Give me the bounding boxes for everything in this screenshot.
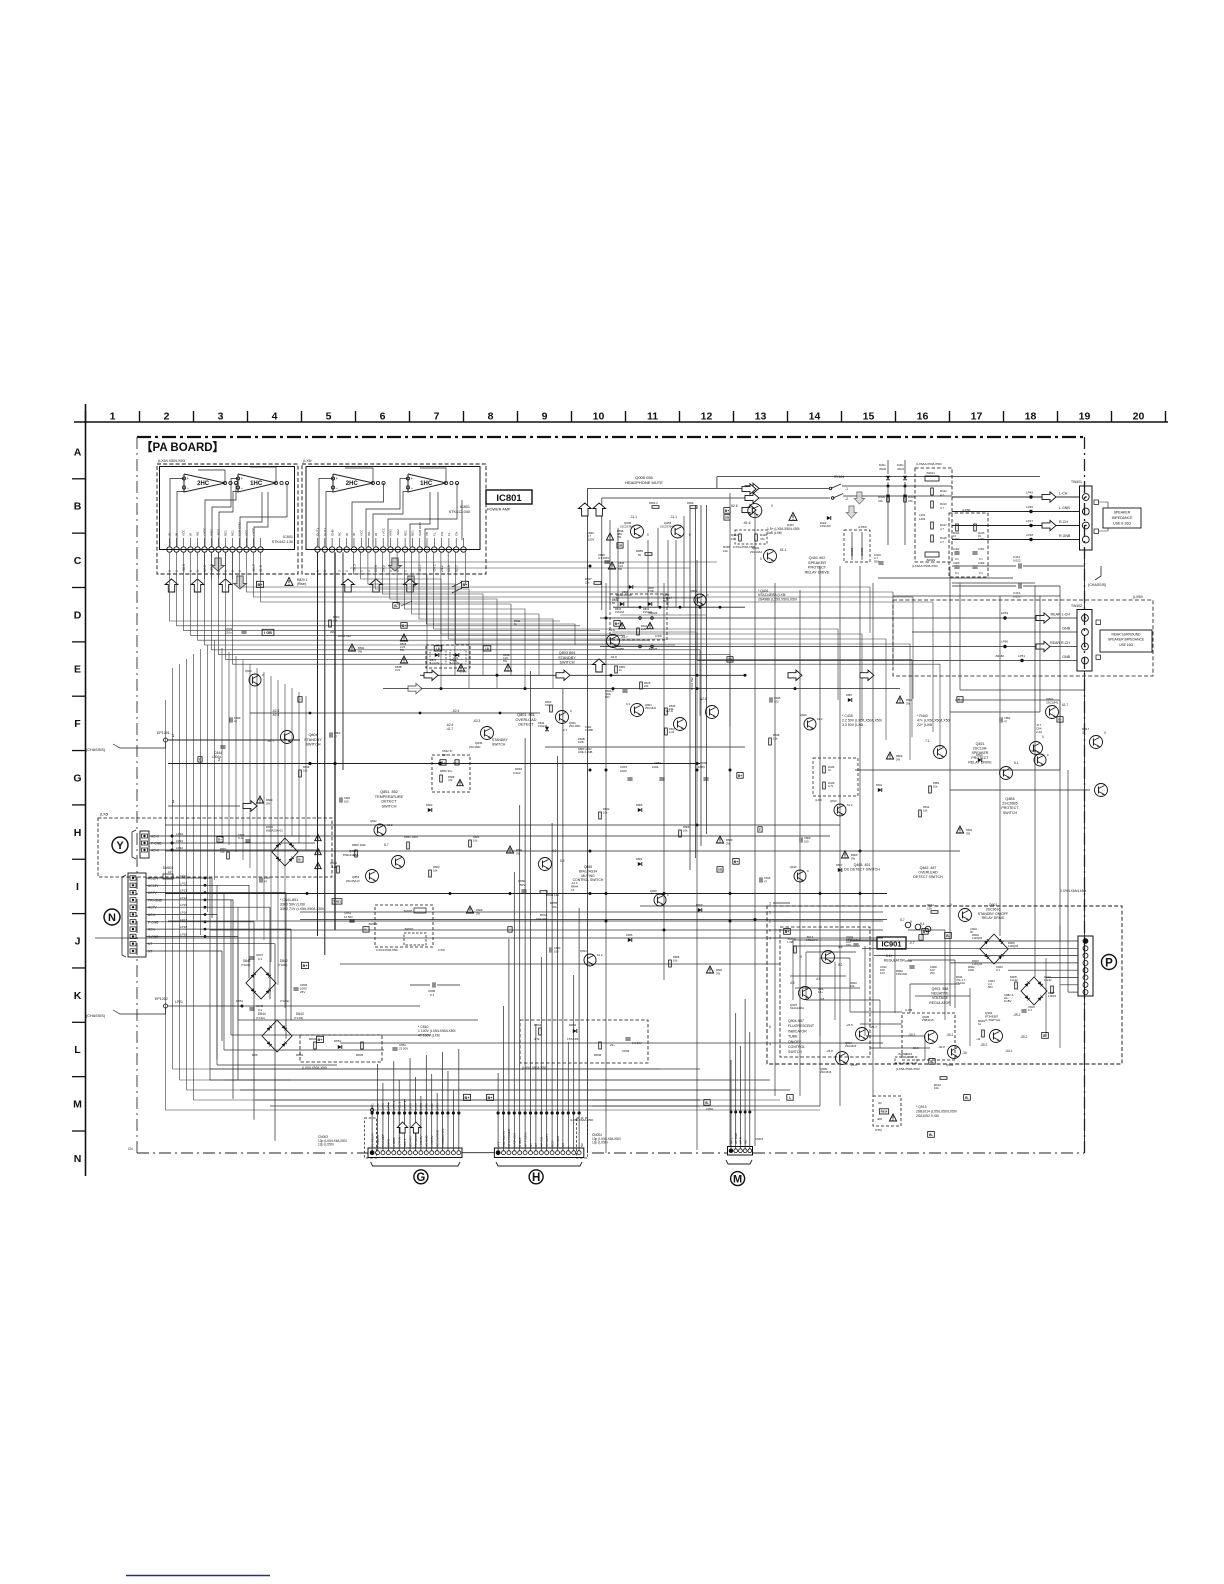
wire bbox=[530, 1113, 532, 1151]
connector P pin bbox=[1083, 968, 1088, 973]
svg-text:(LX5/LX50/LX50l: (LX5/LX50/LX50l bbox=[896, 1067, 920, 1071]
connector H right dashed box bbox=[577, 1118, 588, 1158]
transistor Q401 bbox=[748, 504, 762, 518]
wire bbox=[696, 632, 698, 661]
svg-text:0.8: 0.8 bbox=[820, 997, 825, 1001]
diode bbox=[698, 908, 702, 912]
svg-text:B+: B+ bbox=[318, 1038, 324, 1042]
svg-text:(LX50l: (LX50l bbox=[858, 525, 867, 529]
svg-text:AC13V: AC13V bbox=[148, 884, 159, 888]
IC801 package outline 1 bbox=[160, 467, 295, 550]
wire long vertical bbox=[587, 488, 589, 1153]
wire bbox=[412, 552, 539, 675]
transistor Q453 bbox=[1000, 767, 1013, 780]
warning mark bbox=[315, 848, 321, 854]
arrow bbox=[1042, 492, 1056, 502]
svg-text:220u: 220u bbox=[225, 630, 232, 634]
arrow bbox=[860, 670, 874, 680]
svg-text:100V: 100V bbox=[620, 769, 627, 773]
svg-text:R812: R812 bbox=[923, 805, 930, 809]
svg-text:2SC1841: 2SC1841 bbox=[569, 724, 581, 728]
svg-text:VOL 2: VOL 2 bbox=[403, 1138, 407, 1147]
wire bbox=[285, 893, 287, 1039]
svg-text:(Rear): (Rear) bbox=[297, 582, 306, 586]
svg-text:LP48: LP48 bbox=[1026, 533, 1033, 537]
svg-text:I: I bbox=[76, 881, 79, 893]
svg-text:RELAY DRIVE: RELAY DRIVE bbox=[982, 916, 1005, 920]
svg-text:1SS1S0l: 1SS1S0l bbox=[896, 972, 907, 976]
svg-text:(LX6l: (LX6l bbox=[905, 1008, 913, 1012]
svg-text:77-10A: 77-10A bbox=[956, 981, 965, 985]
svg-text:8: 8 bbox=[488, 411, 494, 423]
wire bbox=[567, 1113, 569, 1151]
wire bbox=[862, 947, 1078, 949]
svg-text:J: J bbox=[75, 935, 81, 947]
svg-text:0.X%/LX6A/LX50l: 0.X%/LX6A/LX50l bbox=[1060, 889, 1086, 893]
svg-text:400: 400 bbox=[877, 1117, 882, 1121]
wire bbox=[240, 552, 871, 587]
wire bus 2b bbox=[855, 769, 1060, 771]
svg-text:100k: 100k bbox=[578, 740, 584, 744]
svg-text:11DQ04: 11DQ04 bbox=[972, 936, 983, 940]
wire bbox=[869, 587, 871, 633]
wire bbox=[839, 566, 841, 1106]
wire bbox=[431, 1113, 433, 1151]
resistor R417 bbox=[931, 522, 934, 529]
svg-text:R829: R829 bbox=[476, 908, 483, 912]
connector G circle bbox=[414, 1170, 428, 1184]
svg-text:47 100V (LX6l: 47 100V (LX6l bbox=[418, 1033, 440, 1037]
wire bbox=[508, 1113, 510, 1151]
IC901 outer group box bbox=[767, 906, 1122, 1064]
resistor bbox=[679, 830, 682, 837]
svg-text:4: 4 bbox=[272, 411, 278, 423]
wire bbox=[739, 1046, 741, 1112]
ruler tick bbox=[895, 411, 897, 422]
svg-text:17B/LX4l: 17B/LX4l bbox=[806, 938, 818, 942]
svg-text:2SC1841: 2SC1841 bbox=[469, 745, 481, 749]
svg-text:LP82: LP82 bbox=[430, 1103, 434, 1110]
wire bbox=[397, 552, 511, 675]
svg-text:B+: B+ bbox=[615, 622, 619, 626]
ruler tick bbox=[949, 411, 951, 422]
svg-text:R824: R824 bbox=[473, 835, 480, 839]
wire bbox=[146, 950, 222, 952]
wire bbox=[909, 984, 911, 1013]
arrow bbox=[788, 670, 802, 680]
svg-text:NE1: NE1 bbox=[231, 530, 235, 536]
svg-text:4: 4 bbox=[769, 937, 771, 941]
wire bbox=[773, 1042, 883, 1044]
warning mark bbox=[400, 634, 407, 641]
svg-text:60.9: 60.9 bbox=[374, 565, 378, 572]
wire 3 with arrow bbox=[168, 805, 240, 807]
wire bbox=[298, 692, 300, 843]
wire bbox=[377, 1113, 379, 1151]
svg-text:0.1: 0.1 bbox=[1028, 1008, 1032, 1012]
wire bbox=[949, 566, 951, 1006]
wire bbox=[908, 929, 945, 931]
svg-text:10k: 10k bbox=[473, 839, 478, 843]
wire bbox=[530, 671, 532, 1113]
wire bbox=[371, 1105, 373, 1113]
warning mark bbox=[789, 513, 797, 521]
svg-text:56: 56 bbox=[638, 553, 642, 557]
wire bbox=[387, 1113, 389, 1151]
svg-text:LP18: LP18 bbox=[180, 925, 187, 929]
group box L.X6A top right bbox=[915, 468, 952, 562]
wire bbox=[149, 842, 315, 844]
wire bbox=[699, 650, 701, 716]
svg-text:2W: 2W bbox=[358, 650, 362, 654]
resistor R407 bbox=[904, 495, 907, 502]
wire bbox=[805, 952, 807, 1000]
svg-text:0.1: 0.1 bbox=[955, 557, 959, 561]
capacitor C406 bbox=[954, 565, 959, 567]
svg-text:-26.8: -26.8 bbox=[826, 1049, 833, 1053]
transistor Q907 bbox=[799, 987, 812, 1000]
rear impedance box bbox=[1100, 630, 1152, 652]
PA BOARD dash-dot border top bbox=[137, 436, 1084, 438]
svg-text:P: P bbox=[1105, 958, 1113, 970]
svg-text:ECO: ECO bbox=[550, 1140, 554, 1147]
resistor R904 bbox=[982, 1030, 985, 1037]
svg-text:4.7: 4.7 bbox=[940, 540, 944, 544]
wire bbox=[184, 552, 601, 630]
connector G outline bbox=[368, 1148, 462, 1158]
svg-text:+: + bbox=[241, 476, 244, 481]
arrow bbox=[846, 506, 856, 518]
wire bbox=[932, 602, 934, 732]
transistor Q810 bbox=[674, 718, 687, 731]
svg-text:IC801: IC801 bbox=[460, 505, 470, 509]
wire bbox=[600, 646, 697, 648]
svg-text:C839: C839 bbox=[234, 716, 241, 720]
svg-text:NE1: NE1 bbox=[411, 530, 415, 536]
wire bus bbox=[420, 674, 745, 676]
wire bbox=[238, 1019, 478, 1021]
connector M outline bbox=[728, 1147, 753, 1156]
wire bbox=[689, 505, 691, 870]
warning mark bbox=[716, 836, 723, 843]
svg-text:R800: R800 bbox=[333, 615, 340, 619]
arrow bbox=[742, 505, 756, 515]
svg-text:0F: 0F bbox=[970, 930, 974, 934]
svg-text:CN: CN bbox=[454, 532, 458, 536]
arrow bbox=[556, 670, 570, 680]
svg-text:(TLR2): (TLR2) bbox=[278, 963, 287, 967]
connector M bracket bbox=[726, 1160, 752, 1164]
svg-text:47k: 47k bbox=[760, 537, 765, 541]
warning mark bbox=[315, 862, 321, 868]
svg-text:JW607: JW607 bbox=[404, 927, 414, 931]
svg-text:R.GNB: R.GNB bbox=[1059, 534, 1071, 538]
svg-text:D823: D823 bbox=[426, 803, 433, 807]
wire bbox=[447, 1071, 449, 1113]
svg-text:LP78: LP78 bbox=[408, 1103, 412, 1110]
wire bbox=[233, 552, 941, 664]
svg-text:D: D bbox=[74, 609, 82, 621]
capacitor C402 bbox=[954, 551, 959, 553]
resistor R429 bbox=[755, 534, 758, 541]
junction bbox=[696, 769, 699, 772]
wire bbox=[221, 648, 223, 838]
svg-text:15k: 15k bbox=[545, 703, 550, 707]
resistor R813 bbox=[550, 705, 553, 712]
svg-text:Y: Y bbox=[116, 840, 124, 852]
rear impedance squares bbox=[1096, 620, 1101, 625]
svg-text:RELAY DRIVE: RELAY DRIVE bbox=[968, 760, 992, 764]
wire bbox=[573, 975, 575, 1113]
warning mark bbox=[506, 846, 513, 853]
svg-text:OUT1: OUT1 bbox=[316, 528, 320, 536]
wire bus 2 bbox=[168, 763, 700, 765]
wire bbox=[497, 1113, 499, 1151]
wire bbox=[404, 1099, 406, 1113]
connector P pin bbox=[1083, 982, 1088, 987]
wire bbox=[792, 940, 794, 1000]
svg-text:-30.2: -30.2 bbox=[908, 1033, 915, 1037]
resistor bbox=[669, 960, 672, 967]
diode bbox=[628, 938, 632, 942]
pin row IC801-2 bbox=[315, 547, 320, 552]
svg-text:HP GNB: HP GNB bbox=[734, 1133, 738, 1144]
wire bbox=[609, 520, 611, 607]
svg-text:-16: -16 bbox=[452, 761, 456, 765]
wire bbox=[513, 1113, 515, 1151]
op-amp 1HC (IC801-2) bbox=[406, 474, 447, 492]
wire bbox=[950, 789, 1090, 791]
svg-text:12: 12 bbox=[701, 411, 713, 423]
arrow bbox=[578, 503, 591, 516]
wire bbox=[261, 552, 934, 602]
svg-text:2SA1052 0.X6l: 2SA1052 0.X6l bbox=[916, 1114, 939, 1118]
svg-text:L-CH: L-CH bbox=[1059, 492, 1068, 496]
svg-text:9-1: 9-1 bbox=[920, 922, 925, 926]
svg-text:LP75 1: LP75 1 bbox=[392, 1100, 396, 1110]
wire bbox=[290, 929, 292, 1020]
svg-text:12V: 12V bbox=[880, 971, 885, 975]
wire bbox=[879, 1000, 881, 1048]
capacitor C845 bbox=[293, 987, 298, 989]
capacitor C409 bbox=[972, 565, 977, 567]
svg-text:IN1: IN1 bbox=[196, 531, 200, 536]
diode bbox=[638, 808, 642, 812]
svg-text:HF T-5SV1: HF T-5SV1 bbox=[523, 1132, 527, 1147]
svg-text:61.2: 61.2 bbox=[597, 953, 603, 957]
wire bbox=[305, 696, 307, 850]
svg-text:LP51: LP51 bbox=[1018, 654, 1025, 658]
wire bbox=[237, 936, 239, 1080]
wire bbox=[908, 959, 955, 961]
svg-text:B+: B+ bbox=[303, 964, 309, 968]
svg-text:MUTING: MUTING bbox=[581, 874, 595, 878]
wire headphone bbox=[588, 487, 830, 489]
wire bbox=[149, 849, 320, 851]
connector P pin bbox=[1083, 990, 1088, 995]
wire bus bbox=[175, 835, 830, 837]
warning mark bbox=[896, 696, 903, 703]
svg-text:4.7: 4.7 bbox=[940, 527, 944, 531]
svg-text:B-: B- bbox=[946, 934, 950, 938]
svg-text:DETECT: DETECT bbox=[518, 723, 534, 727]
svg-text:G: G bbox=[416, 1172, 425, 1184]
svg-text:47: 47 bbox=[234, 720, 237, 724]
transistor Q451 bbox=[934, 746, 947, 759]
svg-text:R836: R836 bbox=[673, 955, 680, 959]
wire bbox=[382, 1113, 384, 1151]
ruler tick bbox=[301, 411, 303, 422]
svg-text:W: W bbox=[189, 533, 193, 536]
wire bbox=[1023, 585, 1060, 587]
svg-text:I GB: I GB bbox=[264, 631, 272, 635]
svg-text:0: 0 bbox=[389, 570, 393, 572]
svg-text:-25.7: -25.7 bbox=[870, 1025, 877, 1029]
ruler tick bbox=[463, 411, 465, 422]
svg-text:0.X6l: 0.X6l bbox=[438, 948, 445, 952]
wire bbox=[773, 937, 790, 939]
wire bbox=[465, 552, 467, 585]
svg-text:100: 100 bbox=[804, 840, 809, 844]
resistor R843 bbox=[314, 1042, 317, 1049]
wire bbox=[146, 928, 291, 930]
wire bbox=[434, 552, 838, 700]
resistor bbox=[329, 620, 332, 627]
svg-text:2.2k: 2.2k bbox=[669, 730, 675, 734]
svg-text:2SC3616: 2SC3616 bbox=[820, 1070, 832, 1074]
resistor R912 bbox=[940, 1077, 947, 1080]
svg-text:R841: R841 bbox=[516, 848, 523, 852]
wire bbox=[193, 654, 195, 1100]
IC801 badge bbox=[486, 490, 532, 504]
svg-text:0.X6l: 0.X6l bbox=[655, 634, 662, 638]
arrow bbox=[411, 1122, 421, 1133]
transistor bbox=[374, 824, 386, 836]
resistor bbox=[599, 812, 602, 819]
svg-text:4.7k: 4.7k bbox=[828, 784, 834, 788]
wire bbox=[592, 1099, 700, 1101]
arrow bbox=[593, 503, 606, 516]
svg-text:59.3: 59.3 bbox=[382, 565, 386, 572]
diodes D401 D402 bbox=[886, 476, 890, 480]
JW901 bbox=[895, 1057, 917, 1063]
svg-text:AV: AV bbox=[878, 1101, 882, 1105]
transistor Q402 bbox=[764, 550, 777, 563]
svg-text:GNB: GNB bbox=[1062, 655, 1070, 659]
svg-text:HP-TW: HP-TW bbox=[540, 1137, 544, 1147]
svg-text:5-1: 5-1 bbox=[1014, 761, 1019, 765]
wire bbox=[263, 672, 265, 940]
svg-text:(LX6l: (LX6l bbox=[815, 798, 822, 802]
JW60x dashed group bbox=[375, 905, 433, 947]
svg-text:VOLTAGE: VOLTAGE bbox=[932, 996, 949, 1000]
svg-text:47k: 47k bbox=[552, 905, 557, 909]
resistor R817 bbox=[665, 728, 668, 735]
group box R44x right-mid bbox=[813, 758, 858, 796]
capacitor C844 bbox=[220, 745, 225, 747]
label B+ bbox=[256, 581, 263, 587]
resistor R443 bbox=[739, 534, 742, 541]
wire bbox=[146, 935, 238, 937]
junction bbox=[589, 892, 592, 895]
IC901 test points bbox=[905, 922, 911, 928]
wire bbox=[168, 920, 883, 922]
wire bbox=[198, 552, 651, 640]
warning mark bbox=[647, 622, 653, 628]
wire bbox=[425, 1113, 427, 1151]
svg-text:IMPEDANCE: IMPEDANCE bbox=[1112, 516, 1133, 520]
wire bbox=[567, 1042, 569, 1113]
diode bridge bbox=[1021, 977, 1047, 1005]
wire bbox=[398, 1080, 400, 1113]
svg-text:LCH-IN: LCH-IN bbox=[398, 1137, 402, 1147]
svg-text:-44.1: -44.1 bbox=[1005, 1049, 1012, 1053]
diode bridge bbox=[246, 967, 276, 999]
wire bbox=[524, 1113, 526, 1151]
wire bus bbox=[300, 919, 887, 921]
svg-text:2HC: 2HC bbox=[346, 481, 359, 487]
transistor Q902 bbox=[990, 1030, 1003, 1043]
warning bbox=[285, 578, 293, 586]
svg-text:HP-MUTY: HP-MUTY bbox=[545, 1133, 549, 1147]
svg-text:B+: B+ bbox=[734, 860, 738, 864]
chassis symbol 1 bbox=[113, 742, 166, 748]
wire bbox=[696, 560, 698, 1150]
svg-text:16: 16 bbox=[917, 411, 929, 423]
svg-text:62.6: 62.6 bbox=[731, 504, 738, 508]
svg-text:22 50V: 22 50V bbox=[399, 1046, 408, 1050]
svg-text:AC-H: AC-H bbox=[151, 849, 160, 853]
wire bbox=[790, 975, 846, 977]
ruler tick bbox=[733, 411, 735, 422]
svg-text:0: 0 bbox=[396, 570, 400, 572]
svg-text:17: 17 bbox=[971, 411, 983, 423]
svg-text:5-7: 5-7 bbox=[900, 918, 905, 922]
svg-text:5W: 5W bbox=[618, 567, 622, 571]
svg-text:25V: 25V bbox=[930, 971, 935, 975]
svg-text:0.1: 0.1 bbox=[258, 1008, 263, 1012]
resistor R415 bbox=[931, 535, 934, 542]
svg-text:LP73: LP73 bbox=[381, 1103, 385, 1110]
svg-text:18+: 18+ bbox=[818, 990, 823, 994]
svg-text:N: N bbox=[108, 912, 116, 924]
resistor R801y bbox=[227, 852, 230, 859]
svg-text:5W: 5W bbox=[400, 648, 404, 652]
svg-text:0.22: 0.22 bbox=[395, 668, 401, 672]
svg-text:1SS133: 1SS133 bbox=[615, 611, 625, 614]
svg-text:RELAY DRIVE: RELAY DRIVE bbox=[805, 570, 830, 574]
wire bbox=[912, 597, 914, 699]
wire bbox=[409, 1113, 411, 1151]
wire bbox=[573, 1113, 575, 1151]
svg-text:NC: NC bbox=[743, 1140, 747, 1144]
wire bbox=[242, 1005, 420, 1007]
wire bbox=[540, 957, 542, 1113]
svg-text:SWITCH: SWITCH bbox=[492, 742, 506, 746]
svg-text:1 GB: 1 GB bbox=[787, 940, 794, 944]
svg-text:(CHASSIS): (CHASSIS) bbox=[86, 748, 106, 752]
transistor Q851 bbox=[392, 856, 405, 869]
svg-text:LP15: LP15 bbox=[180, 903, 187, 907]
svg-text:L: L bbox=[74, 1044, 81, 1056]
svg-text:1-11/1St: 1-11/1St bbox=[430, 662, 440, 665]
ruler tick bbox=[72, 967, 86, 969]
svg-text:R841: R841 bbox=[966, 828, 973, 832]
svg-text:Q401 402: Q401 402 bbox=[809, 556, 826, 560]
wire bbox=[390, 552, 497, 688]
main vertical right bbox=[1084, 550, 1086, 609]
svg-text:8TE124EBA: 8TE124EBA bbox=[343, 853, 359, 857]
